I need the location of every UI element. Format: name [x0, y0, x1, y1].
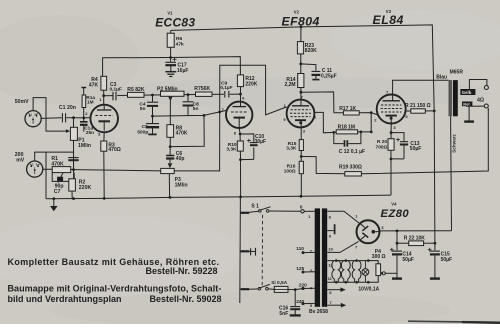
svg-text:0,25µF: 0,25µF: [321, 73, 337, 79]
svg-text:Gelb: Gelb: [462, 90, 472, 95]
svg-text:R19 330Ω: R19 330Ω: [339, 165, 362, 171]
svg-text:700Ω: 700Ω: [376, 144, 388, 150]
svg-text:R6: R6: [176, 36, 183, 42]
svg-text:300 Ω: 300 Ω: [372, 254, 386, 260]
svg-text:ECC83: ECC83: [155, 15, 195, 29]
svg-text:25n: 25n: [86, 130, 94, 136]
svg-text:1Mlin: 1Mlin: [78, 143, 91, 149]
svg-text:R 20: R 20: [377, 139, 387, 145]
svg-text:Bestell-Nr. 59028: Bestell-Nr. 59028: [149, 294, 221, 304]
svg-text:30µF: 30µF: [255, 139, 267, 145]
svg-text:500p: 500p: [137, 129, 148, 135]
svg-text:1Mlin: 1Mlin: [175, 182, 188, 188]
svg-text:40p: 40p: [176, 156, 185, 162]
svg-text:10V/0,1A: 10V/0,1A: [358, 286, 379, 292]
svg-text:220K: 220K: [245, 81, 257, 87]
svg-text:820K: 820K: [305, 48, 317, 54]
svg-text:3,3K: 3,3K: [286, 146, 297, 152]
svg-text:R5 82K: R5 82K: [127, 87, 145, 93]
svg-text:240: 240: [296, 299, 304, 305]
svg-text:R 21 150 Ω: R 21 150 Ω: [405, 103, 431, 109]
svg-text:50mV: 50mV: [15, 99, 29, 105]
svg-text:50µF: 50µF: [402, 257, 414, 263]
svg-text:110: 110: [296, 246, 304, 252]
svg-text:125: 125: [296, 266, 304, 272]
svg-text:R756K: R756K: [194, 86, 210, 92]
svg-text:5nF: 5nF: [279, 311, 288, 317]
svg-text:R 22 10K: R 22 10K: [404, 235, 426, 241]
svg-text:1M: 1M: [87, 99, 94, 105]
svg-text:5n: 5n: [140, 106, 146, 112]
svg-text:12: 12: [328, 262, 333, 267]
svg-text:470Ω: 470Ω: [108, 147, 120, 153]
svg-text:0,1µF: 0,1µF: [110, 86, 122, 92]
svg-text:Blau: Blau: [436, 75, 447, 81]
svg-text:220: 220: [299, 283, 307, 289]
svg-text:470K: 470K: [51, 162, 64, 168]
svg-text:C5: C5: [142, 124, 149, 130]
svg-text:0,1µF: 0,1µF: [220, 85, 232, 90]
svg-text:EF804: EF804: [282, 15, 320, 29]
svg-text:50µF: 50µF: [441, 257, 453, 263]
svg-text:47K: 47K: [89, 82, 99, 88]
svg-text:C1 20n: C1 20n: [59, 105, 76, 111]
svg-text:S 1: S 1: [251, 204, 259, 210]
svg-text:10: 10: [328, 246, 333, 251]
svg-text:Bestell-Nr. 59228: Bestell-Nr. 59228: [145, 266, 217, 276]
svg-text:C 12 0,1 µF: C 12 0,1 µF: [339, 149, 365, 155]
svg-text:Schwarz: Schwarz: [452, 133, 457, 152]
svg-text:5n: 5n: [193, 106, 199, 112]
svg-text:P2 5Mlin: P2 5Mlin: [157, 87, 178, 93]
svg-text:EZ80: EZ80: [381, 208, 410, 220]
svg-text:M65R: M65R: [450, 70, 464, 76]
svg-text:R18 1M: R18 1M: [338, 125, 356, 131]
svg-text:mV: mV: [16, 157, 25, 163]
svg-text:3,3K: 3,3K: [226, 147, 237, 153]
svg-text:16µF: 16µF: [177, 68, 189, 74]
svg-text:V4: V4: [391, 202, 397, 207]
svg-text:0: 0: [300, 204, 303, 210]
svg-text:4Ω: 4Ω: [477, 97, 484, 103]
svg-text:bild und Verdrahtungsplan: bild und Verdrahtungsplan: [8, 294, 122, 304]
svg-text:Si 0,5A: Si 0,5A: [271, 280, 288, 286]
svg-text:100Ω: 100Ω: [284, 169, 296, 175]
svg-text:2,2M: 2,2M: [284, 82, 295, 88]
svg-text:Bv 2658: Bv 2658: [309, 309, 328, 315]
svg-text:220K: 220K: [79, 185, 92, 191]
svg-text:470K: 470K: [176, 130, 188, 136]
svg-text:EL84: EL84: [373, 13, 404, 27]
svg-text:R17 1K: R17 1K: [339, 106, 356, 112]
svg-text:Baumappe mit Original-Verdrah: Baumappe mit Original-Verdrahtungsfoto, …: [8, 283, 222, 293]
svg-text:47k: 47k: [176, 41, 184, 47]
svg-text:50µF: 50µF: [410, 146, 422, 152]
svg-text:C7: C7: [54, 189, 61, 195]
svg-text:Rot: Rot: [463, 101, 470, 106]
